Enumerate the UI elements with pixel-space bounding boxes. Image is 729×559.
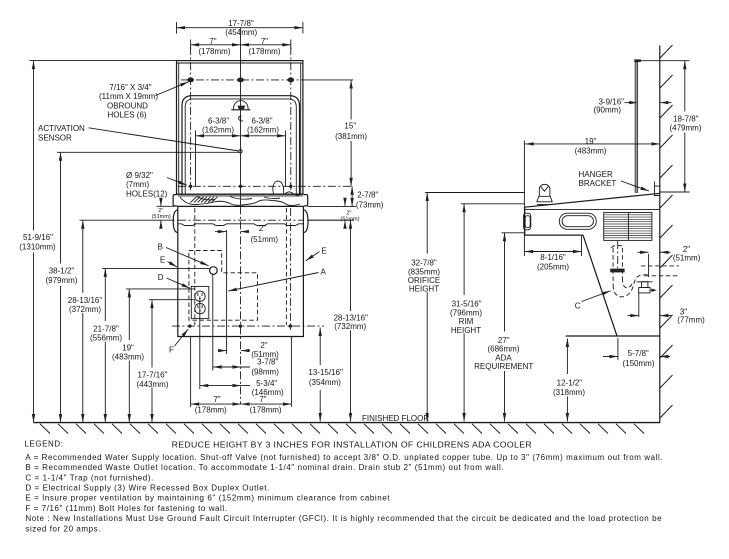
basin left tab <box>173 195 177 206</box>
svg-text:(205mm): (205mm) <box>537 262 569 271</box>
inner dashed liner left <box>194 208 196 325</box>
dim 3 valve <box>638 293 640 318</box>
svg-text:℄: ℄ <box>237 115 244 124</box>
svg-text:(732mm): (732mm) <box>334 322 366 331</box>
dimension 6-3/8 right <box>241 134 286 137</box>
electrical outlet D <box>191 286 209 318</box>
dimension 7 left top <box>191 43 241 46</box>
svg-text:17-7/16": 17-7/16" <box>138 371 168 380</box>
dim 19 <box>525 143 660 145</box>
dim 2in basin left <box>157 205 175 207</box>
riser centerline <box>617 241 619 268</box>
dimension 6-3/8 left <box>196 134 241 137</box>
svg-text:(11mm X 19mm): (11mm X 19mm) <box>99 92 158 101</box>
hole centerline lower right <box>290 208 292 330</box>
mid hole center <box>239 185 242 188</box>
svg-text:D = Electrical Supply (3) Wire: D = Electrical Supply (3) Wire Recessed … <box>25 484 269 493</box>
svg-text:SENSOR: SENSOR <box>38 133 72 142</box>
obround leader <box>156 82 189 96</box>
panel side view <box>635 62 638 193</box>
front plate <box>523 213 530 230</box>
svg-text:RIM: RIM <box>459 317 474 326</box>
svg-text:(354mm): (354mm) <box>309 378 341 387</box>
svg-text:6-3/8": 6-3/8" <box>208 117 229 126</box>
6-3/8 extension right <box>285 131 287 187</box>
dim 17-7/16 <box>149 299 195 301</box>
mid hole right <box>289 185 292 188</box>
leader F <box>175 329 189 346</box>
top holes centerline <box>181 79 306 81</box>
basin right tab <box>304 195 308 206</box>
dim 3-9/16 <box>625 102 637 104</box>
svg-text:(7mm): (7mm) <box>126 180 149 189</box>
6-3/8 extension left <box>195 131 197 187</box>
dim 15 <box>350 80 352 120</box>
svg-text:(178mm): (178mm) <box>250 405 282 414</box>
svg-text:(372mm): (372mm) <box>69 305 101 314</box>
svg-text:(98mm): (98mm) <box>251 368 279 377</box>
svg-text:(73mm): (73mm) <box>356 201 384 210</box>
dim 18-7/8 <box>641 60 690 62</box>
svg-text:(686mm): (686mm) <box>487 345 519 354</box>
svg-text:(77mm): (77mm) <box>677 316 705 325</box>
basin top rim <box>177 193 304 195</box>
dim 2in basin right <box>308 205 356 207</box>
stub extension <box>648 254 650 277</box>
extension line panel top left <box>30 60 177 62</box>
cabinet left ear <box>173 210 178 233</box>
drain grate hatch <box>191 197 218 203</box>
svg-text:(162mm): (162mm) <box>202 126 234 135</box>
svg-text:C: C <box>575 301 581 310</box>
svg-text:F: F <box>169 346 174 355</box>
svg-text:B = Recommended Waste Outlet l: B = Recommended Waste Outlet location. T… <box>25 463 504 472</box>
svg-text:(178mm): (178mm) <box>198 47 230 56</box>
wall hatch <box>660 45 673 418</box>
hanger leader <box>621 181 649 191</box>
dim 2 trap upper <box>215 231 226 233</box>
drain stub dashed <box>641 265 679 267</box>
svg-text:(178mm): (178mm) <box>248 47 280 56</box>
svg-text:(162mm): (162mm) <box>247 126 279 135</box>
dim 2-7/8 <box>351 186 353 206</box>
svg-text:(178mm): (178mm) <box>195 405 227 414</box>
svg-text:FINISHED FLOOR: FINISHED FLOOR <box>362 414 429 423</box>
bubbler dome front <box>234 101 249 110</box>
svg-text:2-7/8": 2-7/8" <box>357 191 378 200</box>
dimension 7 right top <box>241 43 291 46</box>
svg-text:3-7/8": 3-7/8" <box>257 357 278 366</box>
svg-text:C = 1-1/4" Trap (not furnished: C = 1-1/4" Trap (not furnished). <box>25 473 153 482</box>
svg-text:8-1/16": 8-1/16" <box>540 253 566 262</box>
svg-text:17-7/8": 17-7/8" <box>228 19 254 28</box>
hole centerline right <box>290 47 292 190</box>
svg-text:BRACKET: BRACKET <box>579 179 617 188</box>
dimension 17-7/8 top <box>177 26 303 29</box>
bubbler side base <box>537 196 552 202</box>
cabinet right ear <box>303 210 308 233</box>
leader E right <box>306 252 320 261</box>
svg-text:28-13/16": 28-13/16" <box>68 296 103 305</box>
svg-text:7": 7" <box>213 395 220 404</box>
dim 8-1/16 <box>581 236 583 256</box>
svg-text:HOLES(12): HOLES(12) <box>126 189 168 198</box>
svg-text:(443mm): (443mm) <box>136 380 168 389</box>
dim 19 left <box>126 288 196 290</box>
dim 3-7/8 <box>213 366 250 368</box>
svg-text:ADA: ADA <box>495 353 512 362</box>
svg-text:F = 7/16" (11mm) Bolt Holes fo: F = 7/16" (11mm) Bolt Holes for fastenin… <box>25 504 227 513</box>
svg-text:(146mm): (146mm) <box>252 388 284 397</box>
slip nut <box>610 269 624 273</box>
svg-text:REDUCE HEIGHT BY 3 INCHES FOR: REDUCE HEIGHT BY 3 INCHES FOR INSTALLATI… <box>172 439 532 449</box>
svg-text:(51mm): (51mm) <box>152 214 171 220</box>
dim 21-7/8 <box>102 267 210 269</box>
obround hole top right <box>287 78 294 83</box>
holes12 leader <box>167 178 187 186</box>
cabinet top trim profile <box>178 224 303 226</box>
svg-text:(556mm): (556mm) <box>90 334 122 343</box>
svg-text:LEGEND:: LEGEND: <box>24 440 63 449</box>
svg-text:A: A <box>321 268 327 277</box>
hole centerline left <box>190 47 192 190</box>
svg-text:19": 19" <box>585 137 597 146</box>
svg-text:32-7/8": 32-7/8" <box>411 259 437 268</box>
sensor leader <box>89 128 239 151</box>
svg-text:Note : New Installations Must: Note : New Installations Must Use Ground… <box>25 514 662 523</box>
leader D <box>167 278 191 288</box>
rim centerline row <box>178 219 303 221</box>
floor line <box>34 422 661 424</box>
wall line <box>659 46 661 424</box>
shutoff circle B <box>210 267 218 275</box>
svg-text:REQUIREMENT: REQUIREMENT <box>474 362 533 371</box>
svg-text:31-5/16": 31-5/16" <box>452 300 482 309</box>
svg-text:(483mm): (483mm) <box>575 146 607 155</box>
drain riser dashed <box>612 248 614 285</box>
shutoff valve <box>642 282 648 288</box>
svg-text:(318mm): (318mm) <box>553 388 585 397</box>
dim 12-1/2 <box>566 339 568 375</box>
svg-text:HANGER: HANGER <box>579 170 613 179</box>
inner dashed liner right <box>285 208 287 325</box>
dim 28-13/16 left <box>80 219 131 221</box>
svg-text:(51mm): (51mm) <box>673 253 701 262</box>
svg-text:7": 7" <box>261 37 268 46</box>
svg-text:2": 2" <box>259 224 266 233</box>
dim 38-1/2 <box>57 151 239 153</box>
dim 13-15/16 <box>319 328 321 366</box>
mid hole left <box>189 185 192 188</box>
leader C <box>582 291 611 302</box>
obround hole top left <box>187 78 194 83</box>
dashed supply region A <box>189 251 258 321</box>
dim 7 bottom left <box>191 403 292 405</box>
mounting panel outline <box>177 61 303 195</box>
svg-text:(479mm): (479mm) <box>669 124 701 133</box>
svg-text:(796mm): (796mm) <box>450 308 482 317</box>
dim 5-7/8 drain <box>617 338 619 360</box>
obround hole top center <box>237 78 244 83</box>
basin bottom <box>177 205 304 207</box>
bottom holes centerline row <box>172 325 324 327</box>
leader E left <box>168 262 178 268</box>
svg-text:OBROUND: OBROUND <box>107 101 148 110</box>
unit centerline <box>240 28 242 207</box>
cooler bottom front <box>525 234 583 236</box>
lower chase box top <box>566 335 660 337</box>
dim 27 ada requirement <box>502 232 525 234</box>
bottom hole left <box>188 324 191 327</box>
dim 2 wall stub <box>638 251 649 253</box>
svg-text:E = Insure proper ventilation: E = Insure proper ventilation by maintai… <box>25 494 390 503</box>
svg-text:6-3/8": 6-3/8" <box>251 117 272 126</box>
svg-text:7": 7" <box>209 37 216 46</box>
svg-text:12-1/2": 12-1/2" <box>557 378 583 387</box>
svg-text:HEIGHT: HEIGHT <box>451 326 481 335</box>
svg-text:13-15/16": 13-15/16" <box>308 368 343 377</box>
svg-text:21-7/8": 21-7/8" <box>93 324 119 333</box>
cooler belt line <box>525 209 660 211</box>
bottom hole center <box>239 324 242 327</box>
svg-text:ACTIVATION: ACTIVATION <box>38 124 85 133</box>
inner rounded panel <box>182 96 300 195</box>
svg-text:(483mm): (483mm) <box>112 353 144 362</box>
dim 51-9/16 <box>33 61 35 231</box>
dim 5-3/4 <box>200 385 250 387</box>
svg-text:E: E <box>160 255 165 264</box>
svg-text:sized for 20 amps.: sized for 20 amps. <box>25 524 101 533</box>
basin splash contours <box>180 197 300 206</box>
svg-text:(454mm): (454mm) <box>225 28 257 37</box>
cooler top slope <box>525 193 660 207</box>
cooler front edge <box>524 207 526 235</box>
leader B <box>166 248 209 266</box>
dim 31-5/16 rim height <box>461 203 524 205</box>
svg-text:(1310mm): (1310mm) <box>19 242 56 251</box>
svg-text:D: D <box>158 273 164 282</box>
leader A <box>228 273 318 292</box>
svg-text:(150mm): (150mm) <box>622 359 654 368</box>
dim 32-7/8 orifice height <box>425 192 524 194</box>
svg-text:ORIFICE: ORIFICE <box>408 276 440 285</box>
svg-text:51-9/16": 51-9/16" <box>23 233 53 242</box>
svg-text:(835mm): (835mm) <box>408 267 440 276</box>
p-trap dashed <box>613 275 649 297</box>
activation sensor dot <box>239 150 242 153</box>
dim 2 bottom <box>218 350 227 352</box>
svg-text:2": 2" <box>260 341 267 350</box>
svg-text:A = Recommended Water Supply l: A = Recommended Water Supply location. S… <box>25 453 663 462</box>
svg-text:(51mm): (51mm) <box>251 235 279 244</box>
extension lines below cabinet <box>190 337 192 408</box>
oval slot <box>559 213 596 229</box>
svg-text:(979mm): (979mm) <box>45 276 77 285</box>
svg-text:Ø 9/32": Ø 9/32" <box>126 171 153 180</box>
svg-text:HEIGHT: HEIGHT <box>409 285 439 294</box>
hanger bracket shape <box>655 182 661 196</box>
front extension line <box>523 141 525 257</box>
bubbler front view <box>273 181 284 194</box>
svg-text:(381mm): (381mm) <box>335 132 367 141</box>
cooler bottom diagonal <box>583 235 617 336</box>
panel top cap <box>634 59 641 62</box>
svg-text:38-1/2": 38-1/2" <box>49 267 75 276</box>
svg-text:7/16" X 3/4": 7/16" X 3/4" <box>109 83 151 92</box>
lower cabinet <box>178 206 304 336</box>
svg-text:(90mm): (90mm) <box>593 106 621 115</box>
bottom hole right <box>289 324 292 327</box>
svg-text:HOLES (6): HOLES (6) <box>107 111 146 120</box>
svg-text:18-7/8": 18-7/8" <box>673 114 699 123</box>
svg-text:19": 19" <box>122 343 134 352</box>
grille <box>604 213 652 241</box>
svg-text:27": 27" <box>498 336 510 345</box>
mid holes centerline row <box>178 185 352 187</box>
svg-text:7": 7" <box>259 395 266 404</box>
bubbler side dome <box>539 184 550 196</box>
dim 28-13/16 right <box>308 219 354 221</box>
floor hatch <box>40 424 644 434</box>
svg-text:15": 15" <box>344 121 356 130</box>
svg-text:5-7/8": 5-7/8" <box>628 349 649 358</box>
svg-text:B: B <box>158 242 163 251</box>
svg-text:E: E <box>322 247 327 256</box>
